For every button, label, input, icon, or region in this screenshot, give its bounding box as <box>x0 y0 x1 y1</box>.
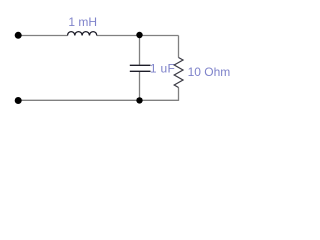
node terminal top-left <box>15 32 22 39</box>
capacitor C1 top plate <box>130 64 151 66</box>
svg-text:1 mH: 1 mH <box>68 15 97 29</box>
resistor R1 zigzag <box>174 58 183 88</box>
wire capacitor top lead <box>139 36 141 65</box>
node terminal bottom-left <box>15 97 22 104</box>
capacitor C1 bottom plate <box>130 70 151 72</box>
node junction bottom (capacitor tap) <box>136 97 142 103</box>
node junction top (capacitor tap) <box>136 32 142 38</box>
wire top segment (left terminal to inductor) <box>18 35 68 37</box>
svg-text:10 Ohm: 10 Ohm <box>188 65 231 79</box>
wire right vertical (corner to resistor top lead) <box>178 36 180 58</box>
wire right vertical (resistor bottom lead to bottom wire) <box>178 88 180 101</box>
wire bottom segment <box>18 99 179 101</box>
wire top segment (inductor to top-right corner) <box>97 35 179 37</box>
wire capacitor bottom lead <box>139 72 141 101</box>
svg-text:1 uF: 1 uF <box>150 62 175 76</box>
inductor L1 coil <box>67 32 96 36</box>
